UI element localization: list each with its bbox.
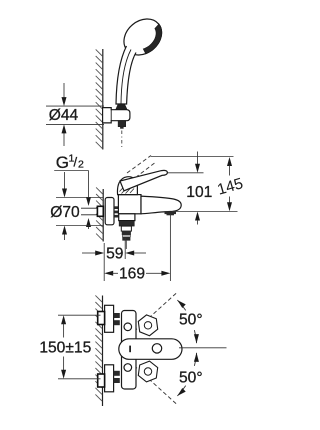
dim 150±15 extension lines bbox=[58, 314, 101, 316]
50° swivel dashed line (bottom) bbox=[134, 366, 177, 405]
G 1/2 leader underline bbox=[54, 170, 88, 172]
dim 150±15 arrows (inside) bbox=[61, 315, 66, 324]
dim 169 arrows (inside) bbox=[104, 271, 113, 276]
svg-text:169: 169 bbox=[119, 266, 145, 283]
spout (top view, pill) bbox=[119, 339, 182, 360]
mixer body (side) bbox=[118, 195, 141, 214]
wall (top section) bbox=[102, 49, 104, 150]
spout (side) bbox=[141, 196, 181, 214]
dim 59 extension lines bbox=[103, 243, 105, 259]
dim 145 arrows bbox=[227, 157, 232, 166]
S-union threads bbox=[114, 206, 119, 209]
shower holder bracket on wall bbox=[103, 108, 130, 123]
dim Ø44 arrows bbox=[63, 83, 65, 98]
top union threads bbox=[114, 313, 120, 318]
50° swivel dashed line (top) bbox=[134, 293, 177, 332]
svg-text:145: 145 bbox=[215, 175, 245, 199]
dim Ø70 arrows bbox=[64, 172, 66, 189]
hose centerline (dash-dot) bbox=[121, 131, 123, 150]
bottom union threads bbox=[114, 371, 120, 376]
G 1/2 lower arrow up to pipe bottom bbox=[86, 218, 91, 227]
escutcheon Ø70 (side) bbox=[105, 198, 114, 225]
top S-union flange bbox=[105, 305, 114, 332]
hose connector: shower outlet bbox=[121, 226, 131, 231]
cartridge bulb under lever bbox=[117, 177, 137, 195]
dim 59 arrows (outside) bbox=[82, 252, 96, 254]
G 1/2 leader arrow down to inlet pipe bbox=[88, 171, 90, 198]
dim 169 extension lines bbox=[103, 259, 105, 281]
svg-text:50°: 50° bbox=[179, 370, 203, 387]
dim Ø44 extension lines bbox=[46, 105, 104, 107]
inlet pipe behind wall bbox=[81, 207, 98, 209]
svg-text:150±15: 150±15 bbox=[39, 340, 91, 357]
50° arc (bottom) bbox=[177, 386, 185, 396]
mixer body (top view) bbox=[122, 311, 137, 390]
svg-text:2: 2 bbox=[78, 159, 84, 171]
svg-text:Ø70: Ø70 bbox=[50, 204, 80, 221]
shower head spray face (dark ring edge-on) bbox=[143, 24, 162, 54]
lever raised position (dashed) bbox=[127, 156, 151, 174]
dim 101 top extension line (from lever tip) bbox=[168, 172, 204, 174]
handle cone entering bracket (dark) bbox=[116, 104, 128, 110]
svg-text:G: G bbox=[56, 153, 69, 172]
wall (bottom section) bbox=[102, 296, 104, 407]
shared bottom extension line (spout outlet) bbox=[172, 211, 238, 213]
hose connection nut (dark) bbox=[119, 221, 134, 227]
spout pivot mark bbox=[129, 346, 131, 353]
body screw top bbox=[124, 323, 132, 331]
bottom inlet pipe behind wall bbox=[98, 374, 105, 387]
hex nut -50° bbox=[138, 361, 157, 382]
svg-text:/: / bbox=[74, 155, 78, 170]
lever handle (side) bbox=[120, 170, 167, 190]
wall (middle section) bbox=[102, 189, 104, 242]
dim Ø70 extension lines bbox=[56, 197, 103, 199]
dim 101 arrows bbox=[197, 152, 199, 165]
svg-text:59: 59 bbox=[106, 246, 123, 263]
hex nut +50° bbox=[138, 315, 157, 336]
50° arc (top) bbox=[177, 300, 185, 310]
top inlet pipe behind wall bbox=[98, 312, 105, 325]
body mount below bbox=[119, 214, 135, 221]
bottom S-union flange bbox=[105, 365, 114, 392]
shower handle (curved, 3 lines) bbox=[116, 46, 136, 104]
svg-text:50°: 50° bbox=[179, 312, 203, 329]
body screw bottom bbox=[124, 364, 132, 372]
aerator under spout tip bbox=[165, 211, 177, 214]
svg-text:Ø44: Ø44 bbox=[49, 107, 79, 124]
svg-text:101: 101 bbox=[186, 184, 212, 201]
dim 145 top extension line (from raised lever) bbox=[151, 156, 234, 158]
hand shower head bbox=[117, 12, 169, 63]
hose nub below bracket bbox=[118, 121, 126, 127]
aerator circle bbox=[152, 344, 161, 353]
spout centerline bbox=[179, 347, 227, 349]
